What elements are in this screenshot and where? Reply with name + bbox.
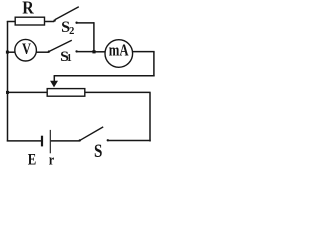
switch S blade xyxy=(80,127,103,140)
svg-text:S: S xyxy=(94,141,102,162)
switch S1 blade xyxy=(49,40,72,51)
switch S pivot dot xyxy=(79,139,81,141)
wire rheostat row right xyxy=(85,91,151,93)
switch S2 blade xyxy=(55,7,79,20)
svg-text:V: V xyxy=(22,41,31,58)
wire bottom row left xyxy=(7,140,41,142)
wire wiper row xyxy=(54,75,155,77)
milliammeter mA xyxy=(105,40,133,68)
svg-text:1: 1 xyxy=(67,53,72,64)
switch S fixed contact dot xyxy=(107,139,109,141)
voltmeter V xyxy=(15,39,37,61)
wire V to S1 pivot xyxy=(36,51,48,53)
node junction bus/V row xyxy=(6,51,9,54)
svg-text:r: r xyxy=(49,153,55,169)
switch S2 fixed contact dot xyxy=(75,22,77,24)
wire left bus xyxy=(7,21,9,142)
wire mA to right bus xyxy=(133,51,155,53)
resistor R xyxy=(15,17,44,25)
wire S2 down to mid row xyxy=(93,22,95,52)
wire S fixed to corner xyxy=(108,140,151,142)
wire mid row stub bus to V xyxy=(7,51,15,53)
wire right bus upper xyxy=(153,52,155,77)
node junction S2/S1/mA xyxy=(92,50,95,53)
wire junction to mA xyxy=(95,51,106,53)
switch S2 pivot dot xyxy=(53,19,55,21)
svg-text:mA: mA xyxy=(109,41,129,60)
wire top row left segment xyxy=(7,21,16,23)
svg-text:2: 2 xyxy=(69,26,74,37)
battery negative plate (short thick) xyxy=(41,136,43,147)
switch S1 fixed contact dot xyxy=(75,50,77,52)
svg-text:E: E xyxy=(28,149,37,168)
rheostat box xyxy=(47,89,85,97)
wire S1 fixed to junction xyxy=(76,51,94,53)
wire wiper shaft xyxy=(53,76,55,83)
wire rheostat row left xyxy=(7,91,47,93)
switch S1 pivot dot xyxy=(48,50,50,52)
wire right bus lower xyxy=(149,92,151,141)
rheostat wiper arrowhead xyxy=(50,81,58,88)
wire S2 fixed contact xyxy=(76,22,94,24)
node junction bus/rheostat row xyxy=(6,91,9,94)
wire battery to S pivot xyxy=(51,140,80,142)
svg-text:R: R xyxy=(22,0,34,18)
battery positive plate (long thin) xyxy=(49,130,51,153)
wire resistor to S2 pivot xyxy=(45,21,55,23)
